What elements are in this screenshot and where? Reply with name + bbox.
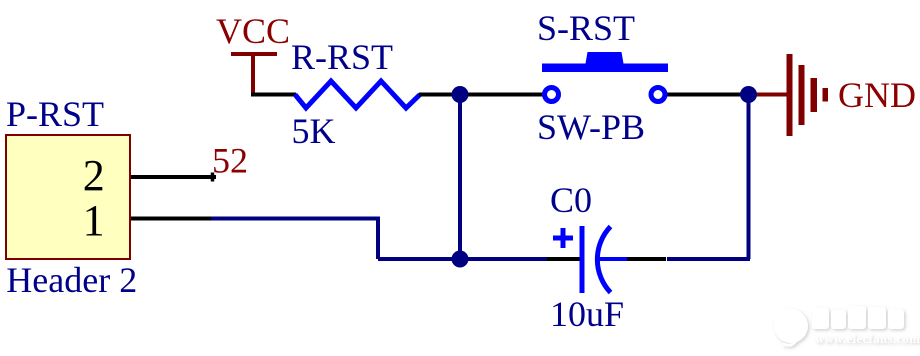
svg-text:GND: GND <box>838 75 916 115</box>
svg-text:VCC: VCC <box>216 11 290 51</box>
svg-text:2: 2 <box>83 151 105 200</box>
svg-text:Header 2: Header 2 <box>6 260 137 300</box>
svg-text:10uF: 10uF <box>550 294 624 334</box>
svg-text:52: 52 <box>212 141 248 181</box>
svg-text:R-RST: R-RST <box>291 37 393 77</box>
svg-text:S-RST: S-RST <box>537 8 635 48</box>
svg-text:C0: C0 <box>550 180 592 220</box>
svg-text:1: 1 <box>83 196 105 245</box>
svg-text:www.elecfans.com: www.elecfans.com <box>815 332 920 346</box>
svg-text:SW-PB: SW-PB <box>537 107 645 147</box>
svg-text:P-RST: P-RST <box>6 94 104 134</box>
svg-text:5K: 5K <box>292 111 336 151</box>
